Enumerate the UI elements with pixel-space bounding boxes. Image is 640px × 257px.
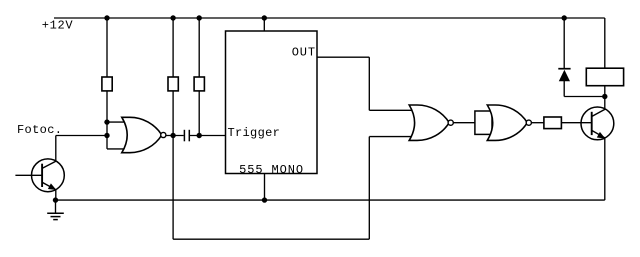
- junction dot emitter-ground: [53, 197, 58, 202]
- wire OUT vertical: [368, 57, 370, 110]
- junction dot rail-R3: [197, 15, 202, 20]
- junction dot capacitor left node: [170, 133, 175, 138]
- resistor R3: [194, 77, 204, 91]
- wire phototransistor collector to gate column: [56, 135, 107, 137]
- wire R2 top drop: [172, 18, 174, 77]
- wire gate1 bottom input stub: [107, 148, 127, 150]
- NOR gate U3 output bubble: [448, 120, 453, 125]
- 555 MONO block U2: [226, 31, 318, 174]
- ground symbol: [47, 213, 64, 219]
- phototransistor Q1 base bar: [41, 164, 43, 187]
- diode D1 flyback: [558, 69, 570, 82]
- svg-text:Fotoc.: Fotoc.: [17, 123, 62, 137]
- junction dot phototransistor node: [104, 133, 109, 138]
- NOR gate U4: [487, 105, 527, 140]
- NOR gate U3: [409, 105, 449, 140]
- wire diode anode drop: [563, 81, 565, 97]
- resistor R1: [102, 77, 112, 91]
- wire relay coil top: [604, 18, 606, 68]
- svg-text:555 MONO: 555 MONO: [239, 163, 303, 177]
- wire R2 bottom long vertical to loop: [172, 91, 174, 239]
- junction dot 555 gnd rail: [262, 197, 267, 202]
- wire gate2 to gate3: [453, 122, 475, 124]
- wire gate2 bottom input stub: [369, 136, 413, 138]
- phototransistor Q1 collector slant: [42, 161, 56, 168]
- svg-text:+12V: +12V: [42, 19, 74, 33]
- junction dot rail-555 Vcc: [262, 15, 267, 20]
- NOR gate U4 output bubble: [526, 120, 531, 125]
- wire relay coil bottom to collector: [604, 86, 606, 110]
- wire diode branch drop: [563, 18, 565, 69]
- junction dot rail-diode: [562, 15, 567, 20]
- junction dot rail-R1: [104, 15, 109, 20]
- wire R3 bottom drop to trigger node: [198, 91, 200, 136]
- wire gate1 top input stub: [107, 121, 127, 123]
- transistor Q2 body: [581, 107, 614, 140]
- wire transistor emitter drop: [604, 138, 606, 200]
- wire R1 bottom to gate input column: [106, 91, 108, 149]
- junction dot relay-collector: [602, 94, 607, 99]
- NOR gate U4 input block: [475, 111, 492, 134]
- wire ground rail: [56, 199, 605, 201]
- wire 555 OUT horizontal: [317, 56, 369, 58]
- transistor Q2 collector slant: [592, 109, 605, 116]
- svg-text:Trigger: Trigger: [228, 126, 280, 140]
- junction dot gate1 top input: [104, 119, 109, 124]
- wire 555 ground drop: [264, 174, 266, 201]
- wire capacitor to 555 Trigger pin: [190, 135, 226, 137]
- transistor Q2 emitter slant: [592, 130, 605, 137]
- phototransistor Q1 emitter slant: [42, 182, 56, 189]
- transistor Q2 emitter arrow: [597, 132, 606, 139]
- wire phototransistor emitter vertical: [55, 190, 57, 200]
- svg-text:OUT: OUT: [292, 45, 315, 59]
- wire ground stub: [55, 200, 57, 213]
- NOR gate U1 output bubble: [161, 132, 166, 137]
- wire gate2 top input stub: [369, 109, 413, 111]
- wire phototransistor collector vertical: [55, 136, 57, 162]
- wire R1 top drop: [106, 18, 108, 77]
- phototransistor Q1 body: [32, 159, 65, 192]
- wire R3 top drop: [198, 18, 200, 77]
- relay K1 coil: [586, 68, 623, 86]
- capacitor C1: [184, 130, 189, 142]
- NOR gate U1 (inverter): [122, 117, 162, 152]
- transistor Q2 base bar: [591, 112, 593, 135]
- wire gate3 to base resistor: [531, 122, 544, 124]
- wire diode bottom horizontal: [564, 96, 605, 98]
- wire +12V top rail: [54, 17, 605, 19]
- junction dot rail-R2: [170, 15, 175, 20]
- phototransistor Q1 emitter arrow: [48, 183, 57, 190]
- wire phototransistor base lead: [15, 174, 42, 176]
- wire feedback vertical right: [368, 137, 370, 240]
- junction dot trigger node: [197, 133, 202, 138]
- wire feedback bottom: [173, 238, 369, 240]
- resistor R2: [168, 77, 178, 91]
- wire 555 Vcc drop: [263, 18, 265, 31]
- wire base resistor to transistor base: [561, 122, 591, 124]
- resistor R4 base resistor: [544, 117, 562, 129]
- wire gate output to capacitor: [166, 135, 184, 137]
